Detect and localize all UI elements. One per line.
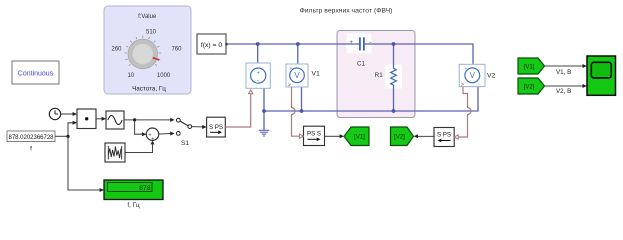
svg-text:+: + bbox=[151, 136, 154, 142]
svg-text:510: 510 bbox=[146, 30, 157, 36]
wire S PS right converter to goto V2 bbox=[417, 135, 434, 137]
voltmeter V2 bbox=[459, 64, 495, 88]
svg-text:V2: V2 bbox=[487, 73, 496, 80]
svg-text:R1: R1 bbox=[375, 72, 384, 79]
svg-text:V1: V1 bbox=[312, 71, 321, 78]
svg-text:f: f bbox=[30, 146, 32, 153]
svg-text:f(x) = 0: f(x) = 0 bbox=[201, 42, 223, 49]
svg-text:[V1]: [V1] bbox=[524, 65, 535, 71]
wire switch to S PS converter bbox=[192, 126, 203, 128]
svg-text:V1, В: V1, В bbox=[556, 69, 571, 76]
wire V1 bottom stub bbox=[301, 87, 303, 111]
svg-text:[V1]: [V1] bbox=[354, 135, 365, 141]
clock bbox=[49, 108, 60, 119]
R1 resistor block white background bbox=[385, 65, 402, 89]
svg-text:760: 760 bbox=[171, 47, 182, 53]
svg-text:Continuous: Continuous bbox=[18, 71, 54, 78]
wire from V2 tag to scope bbox=[545, 85, 584, 87]
display f, Гц (green) bbox=[104, 180, 163, 209]
solver configuration f(x)=0 bbox=[197, 34, 228, 54]
wire clock to product bbox=[55, 66, 583, 190]
wire from V1 tag to scope bbox=[545, 65, 584, 67]
PS-simulink converter S PS (V2, flipped) bbox=[434, 128, 454, 147]
controlled voltage source bbox=[246, 63, 270, 88]
knob block Частота, Гц bbox=[104, 6, 191, 94]
wire V1 PS output to PS S bbox=[292, 87, 300, 136]
svg-text:878.0202366728: 878.0202366728 bbox=[9, 134, 55, 141]
sum block bbox=[146, 128, 158, 142]
svg-text:Частота, Гц: Частота, Гц bbox=[132, 86, 166, 93]
annotation area (pink shaded filter region) bbox=[337, 31, 415, 118]
wire R1 top stub bbox=[393, 44, 395, 67]
arrowheads (simulink signals) bbox=[73, 64, 587, 192]
manual switch S1 bbox=[176, 118, 191, 147]
from tag V1 bbox=[518, 58, 545, 74]
constant f bbox=[7, 131, 55, 153]
PS port triangles bbox=[249, 90, 459, 139]
band-limited white noise block bbox=[105, 143, 125, 162]
capacitor C1 bbox=[350, 37, 372, 67]
svg-text:1000: 1000 bbox=[157, 73, 171, 79]
svg-text:f:Value: f:Value bbox=[138, 14, 157, 20]
svg-text:>: > bbox=[288, 83, 291, 89]
physical signal wires (maroon) bbox=[225, 87, 471, 137]
svg-text:+: + bbox=[290, 66, 293, 71]
wire S PS to voltage source PS input bbox=[225, 94, 250, 127]
PS-simulink converter PS S (V1) bbox=[304, 126, 325, 145]
svg-text:Фильтр верхних частот (ФВЧ): Фильтр верхних частот (ФВЧ) bbox=[300, 7, 393, 14]
signal junction dots bbox=[66, 135, 69, 138]
wire voltage source top stub bbox=[257, 44, 259, 68]
svg-text:260: 260 bbox=[111, 47, 122, 53]
C1 capacitor block white background bbox=[347, 34, 372, 54]
svg-text:PS S: PS S bbox=[307, 131, 321, 138]
svg-text:[V2]: [V2] bbox=[394, 135, 405, 141]
product block bbox=[77, 109, 96, 129]
svg-text:+: + bbox=[257, 70, 260, 76]
scope bbox=[587, 56, 616, 95]
from tag V2 bbox=[518, 78, 545, 94]
svg-text:[V2]: [V2] bbox=[524, 85, 535, 91]
svg-text:C1: C1 bbox=[357, 60, 366, 67]
powergui block Continuous bbox=[12, 61, 59, 84]
wire sum to switch input 2 bbox=[159, 133, 171, 136]
wire V1 top stub bbox=[297, 44, 299, 68]
wire junction down to display f Гц bbox=[68, 136, 100, 190]
sine function block bbox=[106, 111, 124, 129]
svg-text:S PS: S PS bbox=[437, 132, 451, 139]
svg-text:-: - bbox=[257, 77, 259, 84]
goto tag V1 bbox=[344, 127, 369, 146]
top bus wire bbox=[227, 44, 479, 130]
svg-text:+: + bbox=[350, 40, 354, 46]
wire constant to junction bbox=[55, 135, 68, 137]
wire junction up to product input 2 bbox=[68, 123, 74, 137]
simulink-PS converter S PS (left) bbox=[207, 117, 226, 137]
svg-text:V2, В: V2, В bbox=[556, 88, 571, 95]
ground stub bbox=[263, 111, 265, 130]
wire PS S converter to goto V1 bbox=[325, 135, 341, 137]
ground bbox=[259, 130, 270, 136]
goto tag V2 bbox=[391, 127, 414, 146]
svg-text:10: 10 bbox=[127, 73, 134, 79]
wire junction down to sum input bbox=[135, 120, 143, 134]
svg-text:878: 878 bbox=[139, 185, 151, 192]
wire V2 PS output to S PS bbox=[458, 87, 471, 137]
svg-text:S1: S1 bbox=[181, 140, 189, 147]
svg-text:V: V bbox=[470, 71, 476, 80]
svg-text:-: - bbox=[370, 40, 372, 46]
svg-text:+: + bbox=[465, 66, 468, 71]
svg-text:f, Гц: f, Гц bbox=[127, 202, 140, 209]
svg-text:V: V bbox=[294, 71, 300, 80]
voltmeter V1 bbox=[286, 64, 320, 89]
resistor R1 bbox=[375, 67, 397, 87]
node junctions on buses bbox=[256, 42, 396, 113]
wire R1 bottom stub bbox=[393, 87, 395, 111]
wire product to sine bbox=[96, 118, 103, 120]
bottom bus wire bbox=[263, 88, 265, 111]
wire noise to sum bottom bbox=[125, 144, 153, 152]
wire sine to junction to switch input 1 bbox=[124, 119, 171, 121]
svg-text:S PS: S PS bbox=[209, 124, 223, 131]
